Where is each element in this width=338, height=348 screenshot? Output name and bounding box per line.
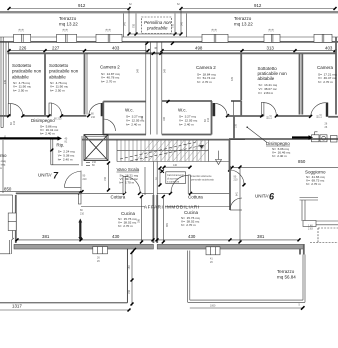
svg-text:Camera 2: Camera 2 bbox=[196, 65, 216, 70]
svg-text:Terrazzo: Terrazzo bbox=[277, 269, 295, 274]
svg-text:210: 210 bbox=[92, 161, 97, 164]
svg-text:1317: 1317 bbox=[12, 304, 22, 309]
svg-text:mq 13.22: mq 13.22 bbox=[59, 22, 78, 27]
svg-text:h= 2.40 m: h= 2.40 m bbox=[40, 132, 55, 136]
svg-text:abitabile: abitabile bbox=[258, 76, 275, 81]
svg-text:430: 430 bbox=[112, 234, 120, 239]
svg-text:306: 306 bbox=[138, 218, 141, 223]
svg-text:150: 150 bbox=[104, 176, 107, 181]
svg-text:150: 150 bbox=[128, 265, 131, 270]
svg-text:Pensilina non: Pensilina non bbox=[144, 20, 172, 25]
svg-text:210: 210 bbox=[320, 113, 323, 118]
svg-text:Vano Scala: Vano Scala bbox=[117, 167, 140, 172]
svg-text:Sottotetto: Sottotetto bbox=[12, 63, 32, 68]
svg-text:Camera: Camera bbox=[317, 65, 334, 70]
svg-text:100: 100 bbox=[235, 123, 238, 128]
svg-text:h= 2.40 m: h= 2.40 m bbox=[272, 154, 287, 158]
svg-text:349: 349 bbox=[164, 68, 167, 73]
svg-text:1060: 1060 bbox=[210, 305, 216, 308]
svg-text:381: 381 bbox=[42, 234, 50, 239]
svg-text:700: 700 bbox=[133, 23, 136, 28]
svg-text:UNITA': UNITA' bbox=[255, 194, 269, 199]
svg-text:praticabile non: praticabile non bbox=[49, 69, 79, 74]
svg-text:UNITA': UNITA' bbox=[38, 173, 52, 178]
svg-text:150: 150 bbox=[128, 289, 131, 294]
svg-text:Cottura: Cottura bbox=[111, 195, 126, 200]
svg-text:h= 2.40 m: h= 2.40 m bbox=[58, 158, 73, 162]
svg-text:a copertura: a copertura bbox=[167, 181, 180, 184]
svg-text:Soggiorno: Soggiorno bbox=[305, 169, 326, 174]
svg-text:403: 403 bbox=[325, 46, 333, 51]
svg-text:226: 226 bbox=[19, 46, 27, 51]
svg-text:Camera 2: Camera 2 bbox=[100, 65, 120, 70]
svg-text:700: 700 bbox=[172, 23, 175, 28]
svg-text:210: 210 bbox=[91, 116, 96, 119]
svg-text:210: 210 bbox=[83, 178, 88, 181]
svg-text:210: 210 bbox=[270, 114, 273, 119]
svg-text:180: 180 bbox=[141, 115, 144, 120]
svg-text:912: 912 bbox=[254, 3, 262, 8]
svg-text:403: 403 bbox=[112, 46, 120, 51]
svg-text:140: 140 bbox=[173, 164, 178, 167]
svg-text:praticabile non: praticabile non bbox=[12, 69, 42, 74]
svg-text:h= 2.50 m: h= 2.50 m bbox=[50, 89, 65, 93]
svg-text:210: 210 bbox=[80, 212, 85, 215]
svg-text:540: 540 bbox=[124, 21, 127, 26]
svg-text:Soggiorno: Soggiorno bbox=[0, 153, 7, 158]
svg-text:641: 641 bbox=[236, 191, 239, 196]
svg-text:850: 850 bbox=[298, 159, 306, 164]
svg-text:210: 210 bbox=[13, 120, 16, 125]
svg-text:Sottotetto: Sottotetto bbox=[49, 63, 69, 68]
svg-text:h= 2.70 m: h= 2.70 m bbox=[318, 80, 333, 84]
svg-text:210: 210 bbox=[58, 118, 63, 121]
svg-text:210: 210 bbox=[207, 117, 210, 122]
svg-text:210: 210 bbox=[234, 179, 239, 182]
svg-text:abitabile: abitabile bbox=[12, 74, 29, 79]
svg-text:praticabile: praticabile bbox=[146, 26, 168, 31]
svg-text:h= 2.70 m: h= 2.70 m bbox=[118, 224, 133, 228]
svg-text:Terrazzo: Terrazzo bbox=[59, 16, 77, 21]
svg-text:h= 2.70 m: h= 2.70 m bbox=[197, 80, 212, 84]
svg-text:540: 540 bbox=[181, 21, 184, 26]
svg-text:mq 56.84: mq 56.84 bbox=[277, 275, 296, 280]
svg-text:h= 2.70 m: h= 2.70 m bbox=[181, 223, 196, 227]
svg-text:Disimpegno: Disimpegno bbox=[31, 118, 55, 123]
svg-text:227: 227 bbox=[52, 46, 60, 51]
svg-text:h= 2.70 m: h= 2.70 m bbox=[306, 182, 321, 186]
svg-text:180: 180 bbox=[163, 116, 166, 121]
svg-text:Terrazzo: Terrazzo bbox=[234, 16, 252, 21]
svg-text:W.c.: W.c. bbox=[178, 108, 187, 113]
svg-text:AFFARI IMMOBILIARI: AFFARI IMMOBILIARI bbox=[144, 204, 200, 209]
svg-text:Rip.: Rip. bbox=[56, 143, 64, 148]
svg-text:439: 439 bbox=[4, 79, 7, 84]
svg-text:h= 2.70 m: h= 2.70 m bbox=[101, 80, 116, 84]
svg-text:429: 429 bbox=[231, 76, 234, 81]
svg-text:a personale autorizzato: a personale autorizzato bbox=[189, 178, 215, 181]
svg-text:Cucina: Cucina bbox=[121, 211, 136, 216]
svg-text:313: 313 bbox=[267, 46, 275, 51]
svg-text:abitabile: abitabile bbox=[49, 74, 66, 79]
svg-text:349: 349 bbox=[137, 68, 140, 73]
svg-text:912: 912 bbox=[78, 3, 86, 8]
svg-text:Cucina: Cucina bbox=[184, 210, 199, 215]
svg-text:mq 13.22: mq 13.22 bbox=[234, 22, 253, 27]
svg-text:306: 306 bbox=[165, 223, 168, 228]
svg-text:h= 2.40 m: h= 2.40 m bbox=[126, 123, 141, 127]
svg-text:850: 850 bbox=[4, 186, 12, 191]
svg-text:Disimpegno: Disimpegno bbox=[266, 141, 290, 146]
svg-text:h= 2.84 m: h= 2.84 m bbox=[259, 91, 274, 95]
svg-text:h= 2.70 m: h= 2.70 m bbox=[120, 181, 135, 185]
svg-text:h= 2.40 m: h= 2.40 m bbox=[179, 123, 194, 127]
svg-text:h= 2.50 m: h= 2.50 m bbox=[13, 89, 28, 93]
svg-text:430: 430 bbox=[188, 234, 196, 239]
svg-text:Cottura: Cottura bbox=[188, 194, 203, 199]
svg-text:498: 498 bbox=[195, 46, 203, 51]
svg-text:381: 381 bbox=[257, 234, 265, 239]
svg-text:W.c.: W.c. bbox=[125, 108, 134, 113]
svg-text:2.83: 2.83 bbox=[308, 228, 313, 231]
